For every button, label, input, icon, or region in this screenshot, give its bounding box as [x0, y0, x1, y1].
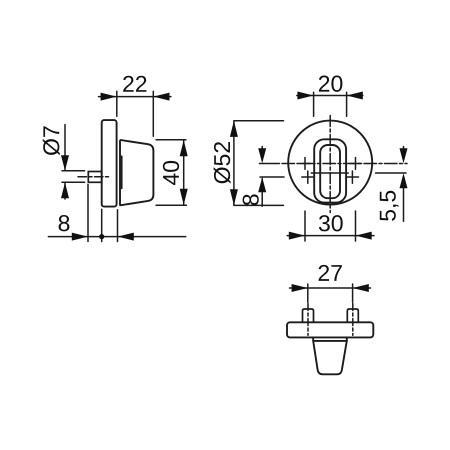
right post centerline	[352, 304, 354, 336]
value label 8 (spindle protrusion)	[59, 215, 70, 231]
value label 27	[319, 265, 342, 281]
thumbturn knob side view	[120, 140, 153, 205]
dimension 8 front view	[261, 147, 263, 161]
value label diameter 52	[214, 142, 231, 184]
dimension 40	[156, 140, 186, 206]
dimension 20	[297, 92, 363, 116]
value label 20	[319, 76, 343, 92]
right screw post	[347, 309, 358, 322]
pin centerline	[78, 176, 110, 178]
value label diameter 7	[43, 126, 60, 155]
screw hole cross upper left	[300, 158, 310, 170]
thumbturn axis line	[311, 172, 348, 174]
rosette plate side view	[102, 120, 117, 207]
dimension 22	[99, 91, 171, 136]
horizontal centerline solid start	[259, 163, 279, 165]
screw hole cross lower left	[302, 171, 314, 183]
thumbturn inner front view	[320, 145, 340, 198]
rosette circle front view	[288, 121, 372, 205]
left post centerline	[307, 304, 309, 336]
knob neck chord	[313, 340, 347, 342]
thumbturn outer front view	[314, 139, 346, 202]
screw hole cross lower right	[347, 171, 359, 183]
knob bottom view	[313, 338, 347, 375]
dimension diameter 52	[234, 121, 284, 206]
screw hole cross upper right	[351, 158, 361, 170]
dimension 8 side view	[48, 184, 185, 241]
value label 8 (hole offset)	[243, 194, 259, 205]
axis extension right	[376, 172, 406, 174]
dimension 5,5	[403, 147, 405, 160]
spindle pin side view	[88, 172, 101, 183]
knob neck line	[121, 156, 123, 188]
plate bar bottom view	[287, 322, 373, 337]
value label 5,5	[380, 191, 399, 221]
dimension 30	[287, 211, 374, 241]
value label 30	[319, 215, 343, 231]
value label 40	[163, 161, 179, 185]
dimension 27	[290, 284, 371, 302]
left screw post	[303, 309, 314, 322]
lower holes line left	[260, 176, 284, 178]
vertical centerline front view	[329, 116, 331, 213]
horizontal centerline front view	[282, 163, 407, 165]
value label 22	[123, 76, 146, 92]
dimension diameter 7	[62, 125, 85, 200]
